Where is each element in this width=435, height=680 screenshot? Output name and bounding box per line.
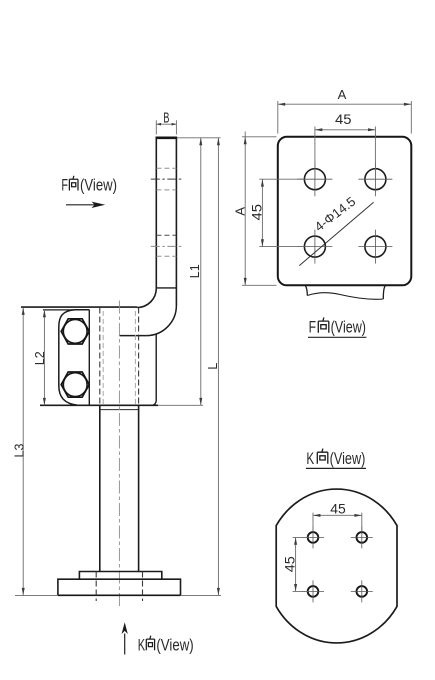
- hole 2 centerline: [151, 245, 183, 247]
- bolt 1 circle: [63, 320, 87, 344]
- svg-text:A: A: [338, 87, 347, 102]
- plate bottom line: [156, 287, 176, 289]
- post right edge: [138, 405, 140, 571]
- L dimension line: [217, 138, 219, 596]
- svg-text:45: 45: [335, 111, 352, 127]
- 45 left dim: [261, 179, 263, 246]
- hole 1 centerline: [151, 178, 183, 180]
- K hole crosses: [302, 526, 373, 602]
- post centerline: [118, 301, 120, 607]
- svg-text:(View): (View): [331, 318, 366, 337]
- B arrows: [156, 123, 161, 126]
- clamp top edge: [43, 309, 89, 311]
- 45 top dim: [315, 129, 376, 131]
- hole UL: [304, 169, 325, 190]
- A left arrows: [244, 137, 247, 144]
- 45 top dim: [313, 514, 361, 516]
- K 45 top arrows: [313, 514, 320, 517]
- F-view plate outline: [278, 137, 412, 285]
- 45 left dim: [295, 537, 297, 591]
- post step line: [100, 409, 139, 411]
- plate (edge view) top edge: [156, 137, 178, 140]
- hole LL: [304, 236, 325, 257]
- svg-text:L3: L3: [13, 444, 27, 458]
- hole UR: [365, 169, 386, 190]
- svg-text:(View): (View): [156, 635, 193, 654]
- plate (edge view) right edge: [175, 138, 177, 306]
- base bottom edge: [58, 594, 181, 596]
- svg-text:L1: L1: [188, 264, 202, 278]
- K view caption: [306, 449, 366, 469]
- A top dim: [278, 103, 412, 105]
- K view body outline: [276, 489, 397, 643]
- L3 dimension line: [22, 308, 24, 596]
- 4-phi14.5 leader line: [299, 202, 373, 265]
- F view dimensions: [242, 101, 411, 285]
- hidden post inner edges (light dashed): [102, 311, 104, 405]
- svg-text:(View): (View): [330, 449, 366, 468]
- clamp saddle right edge: [88, 310, 90, 406]
- svg-text:F: F: [61, 175, 68, 194]
- hidden post edges through clamp (dashed): [99, 308, 101, 406]
- K hole UR: [357, 532, 368, 543]
- K hole LL: [308, 586, 319, 597]
- svg-text:F: F: [309, 318, 316, 337]
- A left dim: [244, 132, 246, 286]
- arm top line: [21, 306, 137, 308]
- L1 dimension line: [200, 138, 202, 406]
- hidden anchor bolts (dashed): [95, 572, 97, 602]
- svg-text:L: L: [206, 363, 220, 370]
- A top arrows: [278, 103, 285, 106]
- svg-text:B: B: [163, 110, 169, 126]
- top extension line to L and L1: [177, 137, 220, 139]
- L1 arrows: [199, 138, 202, 145]
- svg-text:(View): (View): [80, 175, 117, 194]
- svg-text:4-Φ14.5: 4-Φ14.5: [312, 194, 359, 235]
- collar: [79, 572, 161, 580]
- base flange: [58, 579, 181, 595]
- L2 dimension line: [43, 310, 45, 406]
- svg-text:K: K: [306, 449, 314, 468]
- hidden hole 2 edges (dashed): [156, 234, 176, 236]
- svg-text:45: 45: [248, 204, 264, 221]
- hex bolt 1: [61, 319, 89, 344]
- hole center crosses: [297, 162, 392, 263]
- L3 arrows: [22, 308, 25, 315]
- F direction arrow: [66, 204, 99, 206]
- svg-text:L2: L2: [33, 351, 47, 365]
- L2 arrows: [43, 310, 46, 317]
- elbow inner arc: [137, 288, 156, 307]
- svg-text:A: A: [233, 207, 248, 216]
- bolt 2 circle: [63, 373, 87, 397]
- svg-text:45: 45: [330, 500, 346, 516]
- 45 left arrows: [261, 179, 264, 186]
- B extension lines: [156, 120, 176, 134]
- hidden hole 1 edges (dashed): [156, 167, 176, 169]
- clamp right edge with rounded corner: [152, 334, 157, 406]
- svg-text:K: K: [138, 635, 146, 654]
- svg-text:45: 45: [282, 556, 298, 572]
- post left edge: [99, 405, 101, 571]
- B dimension line: [156, 123, 176, 125]
- K 45 left arrows: [294, 537, 297, 544]
- K hole UL: [308, 532, 319, 543]
- elbow outer arc: [146, 306, 176, 336]
- K holes: [308, 532, 367, 597]
- break wavy line: [307, 293, 383, 299]
- F view direction label: [61, 175, 117, 194]
- F view caption: [308, 318, 366, 338]
- clamp bottom line: [40, 404, 158, 406]
- hex bolt 2: [61, 372, 89, 397]
- clamp saddle outline: [59, 310, 90, 406]
- K direction arrow: [124, 634, 126, 655]
- base bottom extension line: [15, 594, 221, 596]
- L arrows: [217, 138, 220, 145]
- arm bottom line: [120, 335, 147, 337]
- tube break-out below plate: [305, 286, 385, 299]
- K view direction label (bottom): [138, 635, 194, 654]
- plate (edge view) left edge: [155, 138, 157, 288]
- hole LR: [365, 236, 386, 257]
- 45 top arrows: [315, 128, 322, 131]
- K view dimensions: [293, 513, 362, 592]
- clamp bottom extension to L1: [158, 404, 203, 406]
- K hole LR: [357, 586, 368, 597]
